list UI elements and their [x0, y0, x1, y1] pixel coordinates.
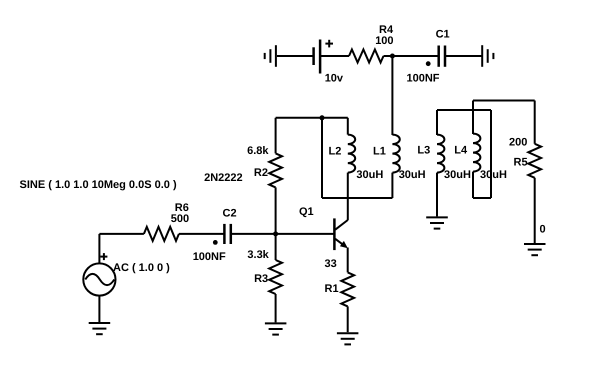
label C2 100NF: [193, 251, 226, 263]
wire: [275, 294, 277, 322]
label L2 30uH: [356, 169, 383, 181]
node junction top wire: [320, 115, 325, 120]
label C1: [436, 29, 450, 41]
node junction base bias: [273, 231, 278, 236]
wire: [347, 173, 349, 221]
label L4: [454, 145, 468, 157]
svg-text:3.3k: 3.3k: [247, 249, 269, 261]
wire: [472, 101, 474, 135]
svg-text:100NF: 100NF: [193, 251, 226, 263]
resistor R5: [528, 144, 541, 178]
inductor L3: [437, 135, 444, 173]
svg-text:L4: L4: [454, 145, 468, 157]
label L4 30uH: [480, 169, 507, 181]
label 2N2222: [204, 172, 243, 184]
label 200: [509, 136, 527, 148]
wire: [473, 197, 491, 199]
wire: [321, 118, 323, 198]
node junction at R4/C1: [390, 54, 395, 59]
svg-text:500: 500: [171, 213, 189, 225]
resistor R2: [269, 153, 282, 187]
svg-text:200: 200: [509, 136, 527, 148]
wire: [98, 234, 100, 263]
wire: [472, 172, 474, 198]
wire: [321, 55, 349, 57]
wire: [384, 55, 439, 57]
svg-text:SINE ( 1.0 1.0 10Meg 0.0S 0.0: SINE ( 1.0 1.0 10Meg 0.0S 0.0 ): [20, 179, 177, 191]
svg-text:100NF: 100NF: [407, 72, 440, 84]
label 100: [375, 35, 393, 47]
resistor R1: [341, 272, 354, 306]
wire: [347, 306, 349, 332]
wire: [99, 233, 143, 235]
wire: [534, 101, 536, 144]
svg-text:C1: C1: [436, 29, 450, 41]
svg-text:Q1: Q1: [299, 206, 314, 218]
wire: [275, 234, 277, 260]
wire: [322, 197, 392, 199]
ground (under R1): [337, 333, 359, 344]
label R5: [514, 157, 528, 169]
label R3: [254, 273, 268, 285]
svg-text:33: 33: [325, 258, 337, 270]
wire: [347, 118, 349, 135]
label R2: [254, 167, 268, 179]
wire: [275, 118, 277, 154]
battery V1: [314, 40, 333, 74]
wire: [347, 248, 349, 273]
svg-text:L3: L3: [417, 145, 430, 157]
label 33: [325, 258, 337, 270]
svg-text:C2: C2: [223, 208, 237, 220]
svg-text:6.8k: 6.8k: [247, 145, 269, 157]
label L3: [417, 145, 430, 157]
label R6: [175, 202, 189, 214]
resistor R3: [269, 260, 282, 294]
svg-text:AC ( 1.0 0 ): AC ( 1.0 0 ): [113, 262, 170, 274]
wire: [275, 187, 277, 234]
label L3 30uH: [444, 169, 471, 181]
wire: [276, 117, 348, 119]
svg-text:30uH: 30uH: [356, 169, 383, 181]
svg-text:R3: R3: [254, 273, 268, 285]
label L2: [329, 145, 342, 157]
label 3.3k: [247, 249, 269, 261]
svg-text:30uH: 30uH: [399, 169, 426, 181]
label SINE params: [20, 179, 177, 191]
transistor Q1: [334, 218, 347, 250]
inductor L2: [348, 135, 355, 173]
svg-text:2N2222: 2N2222: [204, 172, 243, 184]
svg-text:R5: R5: [514, 157, 528, 169]
ground (under R5): [524, 244, 546, 255]
svg-text:30uH: 30uH: [444, 169, 471, 181]
wire: [436, 173, 438, 217]
label 10v: [325, 72, 344, 84]
svg-text:L2: L2: [329, 145, 342, 157]
wire: [437, 109, 491, 111]
label AC ( 1.0 0 ): [113, 262, 170, 274]
ground (top-left, sideways): [265, 45, 276, 67]
label 0: [540, 224, 546, 236]
wire: [179, 233, 224, 235]
wire: [391, 173, 393, 198]
label Q1: [299, 206, 314, 218]
svg-text:100: 100: [375, 35, 393, 47]
wire: [534, 178, 536, 243]
wire: [446, 55, 482, 57]
wire: [473, 100, 535, 102]
svg-text:R4: R4: [379, 24, 394, 36]
ground (under R3): [265, 323, 287, 334]
wire: [232, 233, 334, 235]
wire: [436, 110, 438, 135]
wire: [277, 55, 314, 57]
wire: [490, 110, 492, 198]
label R4: [379, 24, 394, 36]
capacitor C2: [213, 224, 231, 245]
wire: [98, 296, 100, 322]
label R1: [325, 283, 339, 295]
svg-text:R2: R2: [254, 167, 268, 179]
ground (under AC source): [89, 323, 111, 334]
label 500: [171, 213, 189, 225]
ground (under L3): [426, 217, 448, 228]
label L1: [373, 145, 386, 157]
inductor L4: [473, 134, 480, 172]
wire: [391, 56, 393, 135]
inductor L1: [392, 135, 399, 173]
label L1 30uH: [399, 169, 426, 181]
svg-text:10v: 10v: [325, 72, 344, 84]
svg-text:30uH: 30uH: [480, 169, 507, 181]
svg-text:R1: R1: [325, 283, 339, 295]
label C2: [223, 208, 237, 220]
svg-text:L1: L1: [373, 145, 386, 157]
AC source V2: [83, 253, 115, 296]
label 100NF: [407, 72, 440, 84]
resistor R4: [349, 50, 384, 63]
svg-text:0: 0: [540, 224, 546, 236]
label 6.8k: [247, 145, 269, 157]
ground (top-right, sideways): [482, 45, 493, 67]
resistor R6: [144, 227, 179, 241]
capacitor C1: [426, 46, 445, 67]
